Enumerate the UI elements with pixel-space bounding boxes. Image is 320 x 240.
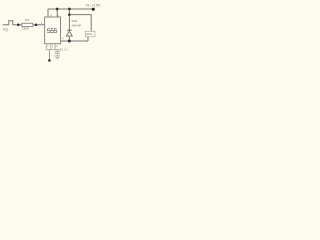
- svg-text:trig: trig: [3, 27, 8, 31]
- pin 4 wire: [47, 9, 49, 17]
- diode VD1: [67, 29, 72, 31]
- node +V terminal: [92, 8, 95, 11]
- svg-text:+5..+15V: +5..+15V: [85, 3, 101, 8]
- wire input to R1: [17, 24, 22, 26]
- pin 6 wire bottom stub: [54, 44, 56, 50]
- node rail branch junction: [68, 8, 71, 11]
- trigger pulse waveform: [3, 21, 18, 25]
- svg-text:VD1: VD1: [71, 19, 77, 23]
- svg-text:1N4148: 1N4148: [71, 24, 81, 28]
- svg-text:piezo: piezo: [86, 32, 93, 36]
- wire piezo bottom: [87, 37, 89, 41]
- ground: [54, 55, 60, 57]
- wire bottom bus: [46, 49, 61, 51]
- svg-text:R1: R1: [25, 18, 29, 22]
- node junction dot left of R1: [17, 24, 20, 27]
- svg-text:220K: 220K: [22, 26, 29, 30]
- buzzer piezo box: [85, 31, 95, 36]
- svg-text:555: 555: [47, 28, 58, 35]
- wire diode branch vertical: [68, 9, 70, 30]
- resistor R1: [22, 23, 33, 26]
- timer U1 555 box: [45, 17, 61, 44]
- node junction dot right of R1: [35, 24, 38, 27]
- background: [0, 0, 110, 70]
- svg-text:C1 0.1: C1 0.1: [60, 48, 69, 52]
- wire +V rail: [48, 8, 94, 10]
- wire bus to bottom terminal: [48, 50, 50, 61]
- wire R1 to pin 2: [33, 24, 45, 26]
- node rail pin8 junction: [56, 8, 59, 11]
- node diode output junction: [68, 40, 71, 43]
- node bottom terminal: [48, 59, 51, 62]
- pin 3 output wire: [61, 40, 89, 42]
- pin 8 wire: [56, 9, 58, 17]
- wire to piezo top: [69, 15, 91, 32]
- node branch piezo tee: [68, 13, 71, 16]
- pin 5 wire bottom stub: [50, 44, 52, 50]
- pin 1 wire bottom stub: [45, 44, 47, 50]
- capacitor C1: [56, 50, 58, 52]
